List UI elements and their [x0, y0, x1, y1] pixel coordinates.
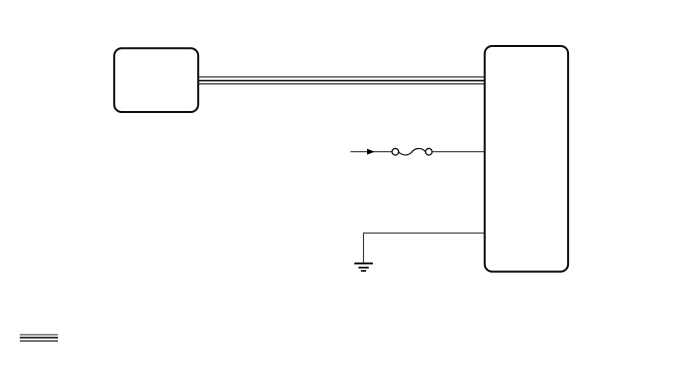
legend mark line 2 [20, 337, 58, 339]
wire bundle line 2 [198, 80, 485, 82]
wire from fuse to right box [432, 151, 485, 153]
ground symbol bar 3 [361, 270, 366, 272]
fuse F (terminal circle 2) [426, 148, 433, 155]
wire bundle line 3 [198, 83, 485, 84]
wire to fuse [351, 151, 393, 153]
ground wire (horizontal + vertical) [364, 233, 485, 263]
fuse F (fusible link: terminal circle 1) [392, 148, 399, 155]
ground symbol bar 1 [354, 262, 373, 264]
legend mark line 1 [20, 334, 58, 336]
legend mark line 3 [20, 340, 58, 342]
ground symbol bar 2 [359, 267, 369, 269]
wire bundle line 1 [198, 76, 485, 77]
arrow (current direction) [367, 149, 373, 154]
right component box [485, 46, 568, 272]
left component box [114, 48, 198, 112]
fuse F (wave element) [399, 148, 426, 154]
